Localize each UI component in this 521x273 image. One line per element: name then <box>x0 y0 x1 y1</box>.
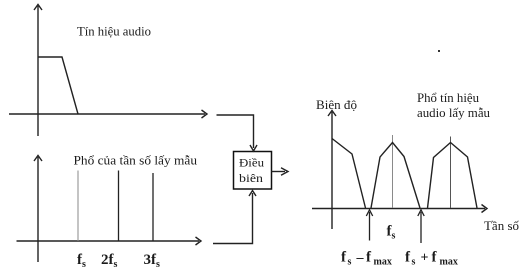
wire: top plot to box <box>217 115 258 151</box>
svg-text:Điều: Điều <box>239 156 264 170</box>
right plot: vertical axis <box>328 111 336 230</box>
svg-text:Biên độ: Biên độ <box>316 97 357 112</box>
wire: bottom plot to box <box>213 191 256 244</box>
spectral line at 2fs <box>118 171 120 242</box>
svg-text:audio lấy mẫu: audio lấy mẫu <box>417 105 490 120</box>
top-left plot: horizontal axis <box>9 110 207 118</box>
modulator box Dieu bien <box>234 152 272 190</box>
audio signal trapezoid curve <box>38 57 78 114</box>
right plot: horizontal axis <box>312 205 487 213</box>
spectrum lobe at 2fs <box>428 143 478 209</box>
svg-text:Phổ tín hiệu: Phổ tín hiệu <box>417 90 479 105</box>
marker arrow at fs+fmax <box>418 210 424 243</box>
svg-text:Phổ của tần số lấy mẫu: Phổ của tần số lấy mẫu <box>74 153 198 168</box>
wire: box output arrow <box>272 168 289 175</box>
carrier line at 2fs <box>450 137 452 209</box>
svg-text:Tần số: Tần số <box>484 218 519 233</box>
svg-text:biên: biên <box>239 171 263 185</box>
svg-text:Tín hiệu audio: Tín hiệu audio <box>77 24 151 39</box>
spectrum lobe at fs <box>371 143 420 209</box>
marker arrow at fs-fmax <box>366 210 372 241</box>
spectral line at 3fs <box>152 173 154 241</box>
bottom-left plot: horizontal axis <box>17 237 202 245</box>
spectral line at fs <box>77 171 79 242</box>
spectrum lobe at 0 <box>332 139 366 209</box>
carrier line at fs <box>392 135 394 208</box>
bottom-left plot: vertical axis <box>34 156 42 263</box>
top-left plot: vertical axis <box>34 5 42 137</box>
scan speck dot <box>438 50 440 52</box>
